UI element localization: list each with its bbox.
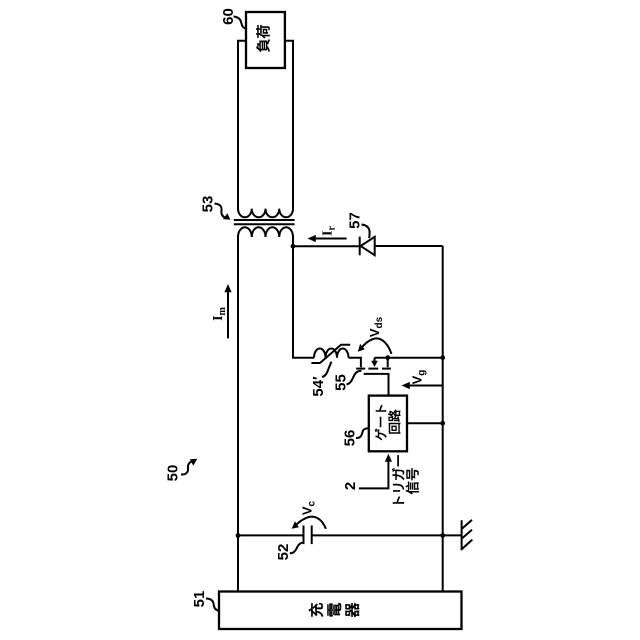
body arrow [374,358,376,362]
svg-text:ゲート: ゲート [374,403,389,441]
transformer primary winding [238,227,293,247]
wire junction to diode [293,245,359,247]
Vg annotation [402,370,443,389]
source lead [387,358,389,368]
svg-text:充: 充 [308,602,326,617]
svg-text:50: 50 [165,465,182,482]
label 50 [165,459,198,482]
capacitor 52 [238,526,443,545]
transformer core [234,219,295,221]
svg-text:52: 52 [275,544,292,561]
node dot rail at source level [440,355,445,360]
svg-text:55: 55 [333,374,350,391]
transformer T 53 secondary winding [238,199,293,217]
channel dashes [356,368,365,370]
right rail [442,246,444,591]
load box 60 [246,12,285,68]
label 60 [220,8,246,28]
svg-text:電: 電 [327,602,344,617]
svg-text:器: 器 [345,602,362,619]
diode 57 [360,237,375,256]
Vds annotation [358,316,392,353]
Vc annotation [292,500,326,528]
svg-text:54′: 54′ [310,376,327,397]
wire source to right rail [375,357,443,359]
charger box 51 [219,592,462,630]
node A junction dot at transformer/diode [291,244,296,249]
trigger signal input [342,454,420,508]
svg-text:53: 53 [200,196,217,213]
label 54' [310,362,331,397]
label 53 [200,196,231,220]
current arrow Im [211,284,232,338]
transistor Q 55 (MOSFET) [349,358,391,396]
label 51 [191,591,219,611]
label 52 [275,543,302,561]
svg-text:57: 57 [347,212,364,229]
wire gate box to right rail [407,422,443,424]
label 56 [342,428,369,446]
node dot left rail capacitor [236,533,241,538]
wire node A down to inductor [293,246,314,358]
label 55 [333,371,362,391]
svg-text:51: 51 [191,591,208,608]
wire left rail [237,246,239,592]
ground [443,520,473,550]
svg-text:回路: 回路 [387,409,402,435]
svg-text:2: 2 [342,482,359,490]
wire diode to right rail [375,245,443,247]
svg-text:信号: 信号 [404,468,420,495]
label 57 [347,212,370,238]
node source junction dot [385,355,390,360]
node dot rail at gate box level [440,421,445,426]
node dot rail ground level [440,533,445,538]
svg-text:トリガー: トリガー [391,454,406,508]
gate bar and lead [364,374,389,396]
svg-text:負荷: 負荷 [256,25,272,53]
inductor 54 [311,345,350,363]
gate circuit box 56 [369,396,407,452]
drain lead [349,358,361,368]
current arrow Ir [308,226,347,243]
svg-text:56: 56 [342,430,359,447]
wire secondary left+right legs to load box [238,41,246,200]
